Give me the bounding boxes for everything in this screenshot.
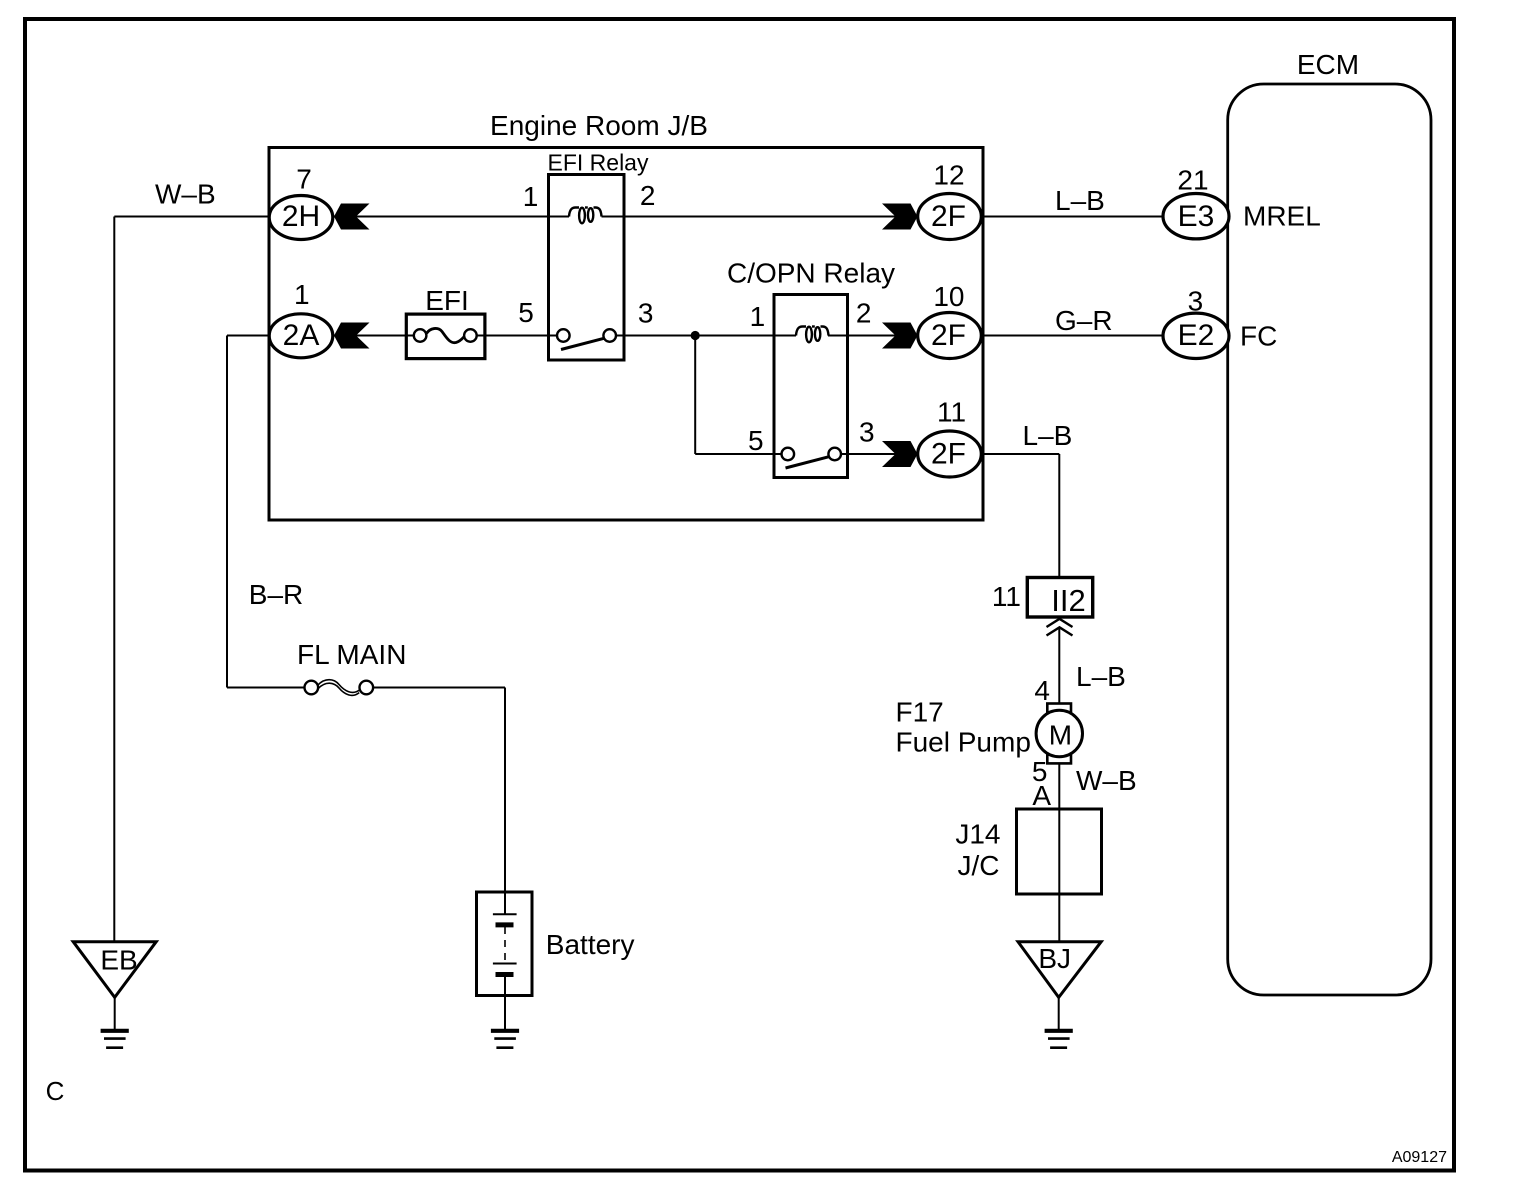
svg-text:3: 3 [1188,286,1204,317]
svg-text:C: C [46,1076,65,1106]
svg-text:2F: 2F [931,200,966,233]
svg-text:J14: J14 [955,819,1000,850]
svg-text:10: 10 [933,281,964,312]
svg-text:EFI Relay: EFI Relay [548,150,649,176]
svg-text:BJ: BJ [1038,943,1071,974]
svg-text:Engine Room J/B: Engine Room J/B [490,110,708,141]
svg-text:L–B: L–B [1076,661,1126,692]
svg-text:Battery: Battery [546,929,635,960]
svg-text:Fuel Pump: Fuel Pump [896,727,1031,758]
svg-text:M: M [1049,720,1072,751]
svg-text:7: 7 [296,164,312,195]
svg-text:II2: II2 [1051,583,1085,618]
svg-text:3: 3 [859,417,875,448]
svg-text:ECM: ECM [1297,49,1359,80]
svg-text:A09127: A09127 [1392,1149,1447,1166]
svg-text:W–B: W–B [1076,765,1137,796]
svg-text:G–R: G–R [1055,305,1113,336]
svg-text:1: 1 [294,279,310,310]
svg-text:2H: 2H [282,200,320,233]
svg-text:C/OPN Relay: C/OPN Relay [727,258,895,289]
svg-text:FL MAIN: FL MAIN [297,639,406,670]
svg-text:5: 5 [518,297,534,328]
svg-text:MREL: MREL [1243,201,1321,232]
svg-text:F17: F17 [896,697,944,728]
svg-text:4: 4 [1034,675,1050,706]
svg-text:2F: 2F [931,438,966,471]
svg-text:W–B: W–B [155,179,216,210]
svg-text:3: 3 [638,298,654,329]
svg-text:L–B: L–B [1055,185,1105,216]
svg-text:E3: E3 [1178,200,1215,233]
svg-text:1: 1 [523,181,539,212]
svg-text:11: 11 [937,397,966,428]
svg-text:EFI: EFI [425,285,469,316]
svg-text:2F: 2F [931,319,966,352]
svg-text:1: 1 [750,301,766,332]
svg-text:B–R: B–R [249,579,303,610]
svg-text:A: A [1032,780,1051,811]
svg-text:5: 5 [748,425,764,456]
svg-text:EB: EB [100,945,137,976]
svg-text:L–B: L–B [1023,420,1073,451]
svg-text:21: 21 [1177,164,1208,195]
svg-text:J/C: J/C [958,850,1000,881]
svg-text:E2: E2 [1178,319,1215,352]
svg-text:2A: 2A [283,319,320,352]
svg-text:12: 12 [933,160,964,191]
svg-text:FC: FC [1240,321,1277,352]
svg-text:11: 11 [992,581,1021,612]
svg-text:2: 2 [640,180,656,211]
svg-text:2: 2 [856,298,872,329]
